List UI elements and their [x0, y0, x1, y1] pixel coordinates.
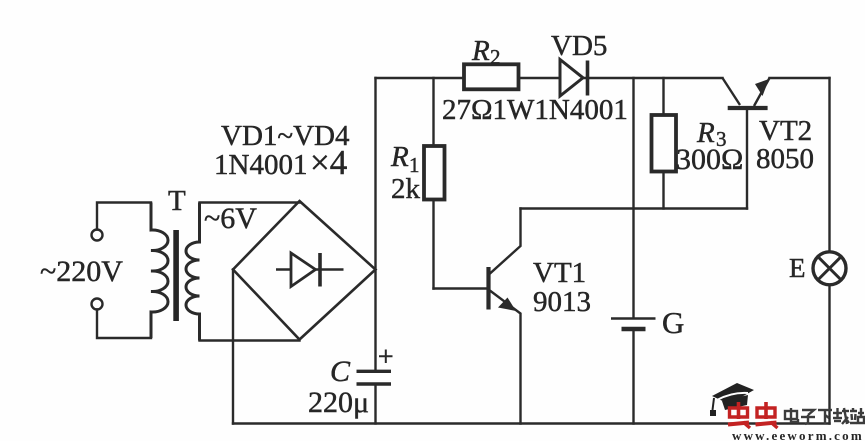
svg-text:2: 2: [490, 45, 501, 69]
svg-text:G: G: [662, 305, 684, 340]
svg-text:C: C: [330, 355, 351, 388]
svg-text:300Ω: 300Ω: [676, 143, 743, 176]
svg-text:1N4001: 1N4001: [214, 149, 307, 181]
svg-text:×4: ×4: [310, 143, 347, 182]
svg-text:~6V: ~6V: [204, 202, 257, 235]
svg-text:2k: 2k: [391, 173, 421, 205]
svg-text:~220V: ~220V: [40, 255, 123, 288]
svg-text:R: R: [471, 35, 490, 67]
svg-text:E: E: [789, 253, 806, 283]
svg-text:T: T: [168, 185, 186, 217]
svg-text:8050: 8050: [756, 143, 814, 175]
svg-text:VT1: VT1: [533, 257, 586, 289]
svg-text:220μ: 220μ: [308, 386, 369, 419]
svg-text:R: R: [390, 141, 409, 173]
svg-text:www.eeworm.com: www.eeworm.com: [732, 428, 864, 441]
svg-text:VD5: VD5: [551, 30, 607, 62]
svg-text:9013: 9013: [533, 286, 591, 318]
svg-text:27Ω1W1N4001: 27Ω1W1N4001: [442, 94, 628, 126]
